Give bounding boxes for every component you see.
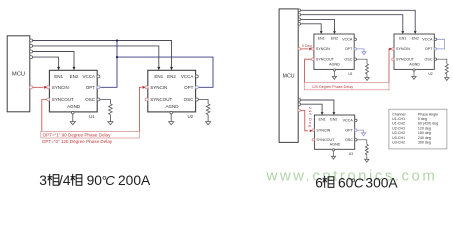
svg-text:0 deg: 0 deg bbox=[418, 117, 427, 121]
pin circle SYNCIN U2 r bbox=[392, 48, 394, 50]
pin circle OSC U3 r bbox=[355, 139, 357, 141]
wire MCU to U2 EN2 (right) bbox=[301, 10, 416, 31]
right schematic: 6-phase configuration bbox=[279, 9, 449, 162]
svg-text:SYNCIN: SYNCIN bbox=[150, 85, 167, 90]
wire U2 OSC to resistor (right) bbox=[437, 59, 447, 64]
wire U1 OSC to resistor (right) bbox=[356, 59, 367, 64]
pin circle OSC U2 bbox=[195, 98, 198, 101]
svg-text:U2: U2 bbox=[187, 114, 193, 119]
svg-text:Phase Angle: Phase Angle bbox=[418, 112, 438, 116]
wire MCU pin3 to U1 EN2 bbox=[33, 52, 74, 68]
svg-text:U2-CH2: U2-CH2 bbox=[392, 131, 405, 135]
pin circle SYNCOUT U1 r bbox=[312, 58, 314, 60]
svg-text:EN1: EN1 bbox=[318, 37, 325, 41]
wire to ground U1 OSC resistor bbox=[366, 74, 368, 78]
ground symbol AGND U1 bbox=[70, 122, 75, 125]
MCU pin circles (left, EN outputs) bbox=[30, 39, 33, 42]
resistor OSC U1 bbox=[109, 104, 113, 115]
pin circle VCCA U3 r bbox=[355, 119, 357, 121]
svg-text:SYNCOUT: SYNCOUT bbox=[316, 57, 335, 61]
svg-text:OPT=“1” 90 Degree Phase Delay: OPT=“1” 90 Degree Phase Delay bbox=[43, 133, 111, 138]
svg-text:U1: U1 bbox=[348, 72, 352, 76]
arrow into U2 SYNCIN bbox=[142, 86, 145, 89]
pin circle OSC U1 bbox=[97, 98, 100, 101]
IC U1 body bbox=[49, 70, 97, 112]
svg-text:U1-CH1: U1-CH1 bbox=[392, 117, 405, 121]
svg-text:OPT: OPT bbox=[345, 128, 353, 132]
svg-text:VCCA: VCCA bbox=[82, 74, 95, 79]
ground symbol AGND U3 r bbox=[331, 156, 335, 159]
IC U1 body (right) bbox=[314, 34, 354, 69]
wire U1 SYNCOUT down to callout (red) bbox=[42, 100, 48, 132]
svg-text:SYNCOUT: SYNCOUT bbox=[52, 97, 74, 102]
svg-text:OSC: OSC bbox=[344, 57, 352, 61]
svg-text:EN2: EN2 bbox=[331, 37, 338, 41]
blue ground symbol U3 OPT bbox=[361, 133, 365, 136]
ground symbol OSC resistor U1 bbox=[108, 122, 113, 125]
svg-text:AGND: AGND bbox=[409, 63, 420, 67]
ground symbol AGND U2 r bbox=[412, 76, 416, 79]
pin circle SYNCIN U1 bbox=[47, 86, 50, 89]
hanzi xiang 2 bbox=[72, 174, 74, 186]
MCU pin circles (right, U3 EN outputs) bbox=[298, 99, 301, 102]
svg-text:OPT=“0” 120 Degree Phase Delay: OPT=“0” 120 Degree Phase Delay bbox=[42, 139, 113, 144]
EN2 arrow into U2 (right) bbox=[414, 31, 417, 34]
red wire callout to U2 SYNCIN (right) bbox=[388, 49, 390, 83]
svg-text:300A: 300A bbox=[365, 175, 398, 190]
svg-text:240 deg: 240 deg bbox=[418, 136, 431, 140]
EN2 arrow into U1 bbox=[73, 67, 76, 70]
junction dot OPT net / EN row bbox=[116, 39, 118, 41]
wire U1 OPT to ground (blue, right) bbox=[356, 49, 364, 52]
AGND pin circle U2 bbox=[170, 111, 173, 114]
wire resistor to ground U2 bbox=[207, 115, 209, 122]
svg-text:300 deg: 300 deg bbox=[418, 141, 431, 145]
svg-text:U2: U2 bbox=[428, 72, 432, 76]
ground symbol AGND U2 bbox=[169, 122, 174, 125]
svg-text:C: C bbox=[105, 173, 115, 188]
ground symbol U3 OSC (right) bbox=[365, 159, 369, 162]
AGND wire U1 r bbox=[333, 71, 335, 76]
wire to ground U2 OSC resistor bbox=[446, 74, 448, 78]
pin circle VCCA U1 r bbox=[354, 38, 356, 40]
IC U2 body (right) bbox=[394, 34, 434, 69]
svg-text:SYNCIN: SYNCIN bbox=[396, 47, 410, 51]
svg-text:EN1: EN1 bbox=[154, 74, 163, 79]
blue ground symbol U1 OPT bbox=[362, 52, 366, 55]
MCU sync pin circle to U1 (right) bbox=[298, 48, 301, 51]
EN2 arrow into U2 bbox=[170, 67, 173, 70]
IC U2 body bbox=[148, 70, 196, 112]
svg-text:/4: /4 bbox=[59, 173, 71, 188]
AGND wire U1 bbox=[72, 114, 74, 122]
pin circle OSC U1 r bbox=[354, 58, 356, 60]
pin circle OSC U2 r bbox=[434, 58, 436, 60]
red wire MCU to U1 SYNCIN 0 deg bbox=[301, 48, 309, 50]
red wire U1 SYNCOUT down to callout bbox=[305, 59, 313, 82]
pin circle VCCA U2 bbox=[195, 75, 198, 78]
MCU SYNC output pin circle (left) bbox=[30, 86, 33, 89]
svg-text:200A: 200A bbox=[118, 173, 151, 188]
pin circle VCCA U1 bbox=[97, 75, 100, 78]
svg-text:AGND: AGND bbox=[165, 104, 179, 109]
svg-text:Channel: Channel bbox=[392, 112, 406, 116]
MCU box (right) bbox=[279, 9, 298, 143]
pin circle SYNCOUT U2 r bbox=[392, 58, 394, 60]
left schematic: 3/4-phase configuration bbox=[7, 36, 213, 144]
MCU sync pin circle to U3 (right) bbox=[298, 109, 301, 112]
arrow into U1 SYNCIN bbox=[44, 86, 47, 89]
pin circle SYNCIN U3 r bbox=[312, 129, 314, 131]
wire resistor to ground U1 bbox=[109, 115, 111, 122]
svg-text:VCCA: VCCA bbox=[343, 119, 354, 123]
pin circle SYNCOUT U2 bbox=[145, 98, 148, 101]
svg-text:6: 6 bbox=[315, 175, 323, 190]
wire MCU to U1 EN1 (right) bbox=[301, 24, 322, 31]
svg-text:OSC: OSC bbox=[184, 97, 195, 102]
arrow into U2 SYNCIN (right) bbox=[389, 48, 392, 51]
pin circle OPT U2 r bbox=[434, 48, 436, 50]
svg-text:3: 3 bbox=[39, 173, 47, 188]
svg-text:EN1: EN1 bbox=[399, 37, 406, 41]
svg-text:AGND: AGND bbox=[329, 63, 340, 67]
svg-text:OSC: OSC bbox=[345, 138, 353, 142]
wire OSC to resistor U1 bbox=[100, 100, 111, 104]
junction dot OPT net branch bbox=[116, 56, 118, 58]
pin circle VCCA U2 r bbox=[434, 38, 436, 40]
EN1 arrow into U2 bbox=[157, 67, 160, 70]
pin circle SYNCIN U2 bbox=[145, 86, 148, 89]
svg-text:U1: U1 bbox=[89, 114, 95, 119]
resistor U2 OSC (right) bbox=[445, 64, 448, 74]
svg-text:SYNCOUT: SYNCOUT bbox=[150, 97, 172, 102]
svg-text:U1-CH2: U1-CH2 bbox=[392, 122, 405, 126]
AGND pin circle U1 r bbox=[333, 69, 335, 71]
AGND pin circle U1 bbox=[72, 111, 75, 114]
EN1 arrow into U2 (right) bbox=[401, 31, 404, 34]
svg-text:OPT: OPT bbox=[184, 85, 194, 90]
AGND pin circle U2 r bbox=[413, 69, 415, 71]
svg-text:SYNCIN: SYNCIN bbox=[316, 47, 330, 51]
svg-text:EN1: EN1 bbox=[54, 74, 63, 79]
svg-text:U3: U3 bbox=[349, 152, 353, 156]
red callout box OPT phase delay bbox=[41, 131, 140, 138]
svg-text:OPT: OPT bbox=[86, 85, 96, 90]
wire OSC to resistor U2 bbox=[198, 100, 208, 104]
wire MCU pin1 to U2 EN2 bbox=[33, 41, 172, 68]
wire U3 OPT to ground (blue, right) bbox=[357, 130, 364, 133]
resistor U3 OSC (right) bbox=[365, 144, 368, 154]
svg-text:EN2: EN2 bbox=[70, 74, 79, 79]
wire MCU to U2 EN1 (right) bbox=[301, 15, 403, 32]
pin circle SYNCIN U1 r bbox=[312, 48, 314, 50]
red wire MCU to U3 SYNCIN 240 deg bbox=[301, 110, 308, 130]
pin circle SYNCOUT U1 bbox=[47, 98, 50, 101]
wire MCU to U3 EN1 (right) bbox=[301, 104, 322, 112]
svg-text:60 (420) deg: 60 (420) deg bbox=[418, 122, 438, 126]
svg-text:120 Degree Phase Delay: 120 Degree Phase Delay bbox=[312, 85, 353, 89]
EN1 arrow into U3 (right) bbox=[321, 112, 324, 115]
svg-text:AGND: AGND bbox=[67, 104, 81, 109]
pin circle OPT U3 r bbox=[355, 129, 357, 131]
svg-text:C: C bbox=[354, 175, 364, 190]
wire MCU SYNC to U1 SYNCIN (red) bbox=[33, 86, 44, 88]
ground symbol U2 OSC (right) bbox=[445, 78, 449, 81]
resistor U1 OSC (right) bbox=[366, 64, 369, 74]
wire MCU pin2 to U2 EN1 bbox=[33, 46, 159, 67]
wire MCU pin4 to U1 EN1 bbox=[33, 57, 59, 67]
wire MCU to U3 EN2 (right) bbox=[301, 100, 334, 112]
resistor OSC U2 bbox=[206, 104, 210, 115]
svg-text:EN2: EN2 bbox=[167, 74, 176, 79]
pin circle SYNCOUT U3 r bbox=[312, 139, 314, 141]
EN1 arrow into U1 bbox=[57, 67, 60, 70]
ground symbol U1 OSC (right) bbox=[365, 78, 369, 81]
svg-text:SYNCOUT: SYNCOUT bbox=[316, 138, 335, 142]
pin circle OPT U1 r bbox=[354, 48, 356, 50]
IC U3 body (right) bbox=[314, 115, 354, 149]
svg-text:OSC: OSC bbox=[85, 97, 96, 102]
svg-text:U3-CH2: U3-CH2 bbox=[392, 141, 405, 145]
svg-text:VCCA: VCCA bbox=[342, 38, 353, 42]
ground symbol AGND U1 r bbox=[332, 76, 336, 79]
wire callout up to U2 SYNCIN (red) bbox=[139, 87, 141, 131]
hanzi xiang 1 bbox=[49, 174, 51, 186]
MCU pin circles (right, EN outputs top) bbox=[298, 9, 301, 12]
EN2 arrow into U3 (right) bbox=[333, 112, 336, 115]
svg-text:180 deg: 180 deg bbox=[418, 131, 431, 135]
red callout box 120 degree phase delay bbox=[304, 82, 389, 89]
AGND wire U2 bbox=[170, 114, 172, 122]
phase angle table box bbox=[389, 109, 447, 149]
arrow into U1 SYNCIN (right) bbox=[309, 48, 312, 51]
svg-text:SYNCOUT: SYNCOUT bbox=[396, 57, 415, 61]
EN2 arrow into U1 (right) bbox=[333, 31, 336, 34]
pin circle OPT U2 bbox=[195, 86, 198, 89]
svg-text:MCU: MCU bbox=[12, 72, 25, 78]
svg-text:EN1: EN1 bbox=[319, 118, 326, 122]
arrow into U3 SYNCIN bbox=[310, 130, 313, 133]
svg-text:EN2: EN2 bbox=[330, 118, 337, 122]
svg-text:OSC: OSC bbox=[425, 57, 433, 61]
svg-text:AGND: AGND bbox=[330, 142, 341, 146]
EN1 arrow into U1 (right) bbox=[320, 31, 323, 34]
svg-text:MCU: MCU bbox=[283, 73, 295, 79]
ground symbol OSC resistor U2 bbox=[206, 122, 211, 125]
hanzi xiang 3 bbox=[324, 176, 326, 188]
wire MCU to U1 EN2 (right) bbox=[301, 19, 335, 31]
svg-text:U3-CH1: U3-CH1 bbox=[392, 136, 405, 140]
pin circle OPT U1 bbox=[97, 86, 100, 89]
svg-text:240 Deg: 240 Deg bbox=[308, 107, 312, 128]
wire OPT net U1 (blue) bbox=[100, 41, 117, 88]
wire to ground U3 OSC resistor bbox=[366, 155, 368, 160]
svg-text:SYNCIN: SYNCIN bbox=[316, 128, 330, 132]
AGND wire U3 r bbox=[333, 151, 335, 156]
wire OPT net horizontal to U2 (blue) bbox=[117, 57, 213, 87]
svg-text:0 Deg: 0 Deg bbox=[302, 44, 312, 48]
wire U3 OSC to resistor (right) bbox=[357, 140, 367, 145]
svg-text:OPT: OPT bbox=[345, 47, 353, 51]
AGND wire U2 r bbox=[413, 71, 415, 76]
wire U2 OPT to VCCA (right) bbox=[437, 39, 445, 49]
MCU box (left) bbox=[7, 36, 30, 112]
svg-text:120 deg: 120 deg bbox=[418, 126, 431, 130]
svg-text:U2-CH1: U2-CH1 bbox=[392, 126, 405, 130]
svg-text:90: 90 bbox=[87, 173, 103, 188]
svg-text:VCCA: VCCA bbox=[422, 38, 433, 42]
svg-text:OPT: OPT bbox=[425, 47, 433, 51]
svg-text:SYNCIN: SYNCIN bbox=[52, 85, 69, 90]
svg-text:EN2: EN2 bbox=[412, 37, 419, 41]
svg-text:VCCA: VCCA bbox=[181, 74, 194, 79]
AGND pin circle U3 r bbox=[332, 149, 334, 151]
